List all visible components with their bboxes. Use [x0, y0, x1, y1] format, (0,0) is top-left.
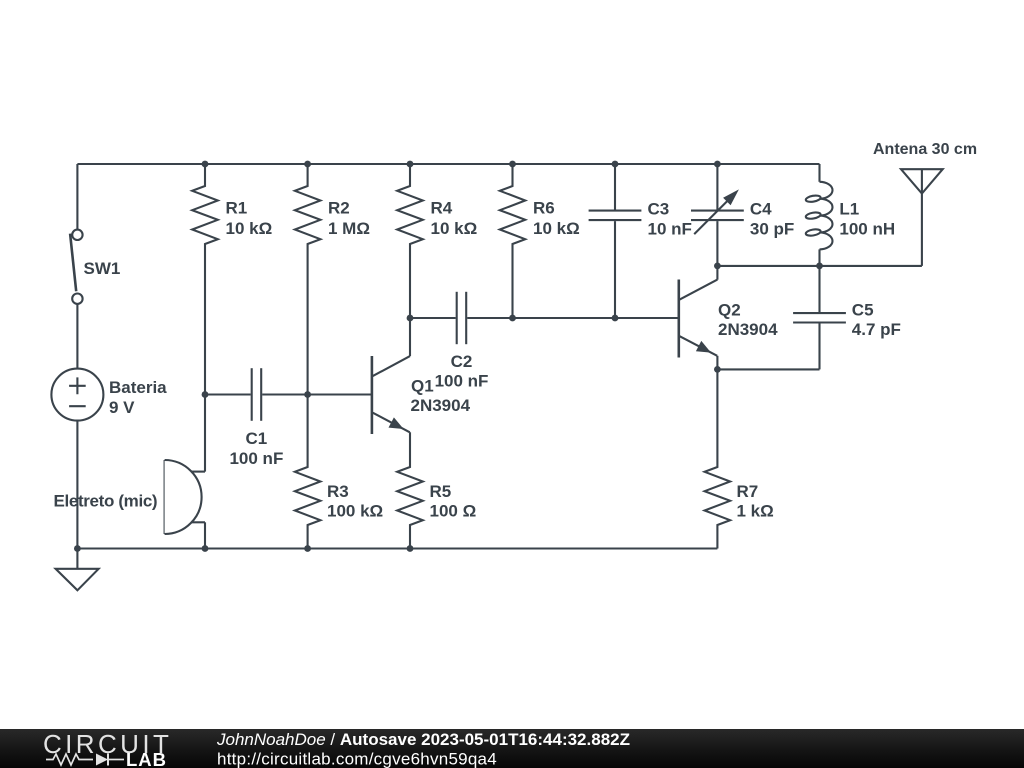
svg-text:100 Ω: 100 Ω [430, 502, 477, 521]
node R1 top [202, 161, 209, 168]
node C2 left [407, 315, 414, 322]
resistor R3 [295, 395, 321, 549]
svg-text:10 nF: 10 nF [648, 220, 692, 239]
svg-text:10 kΩ: 10 kΩ [226, 219, 273, 238]
svg-text:C5: C5 [852, 301, 874, 320]
svg-text:L1: L1 [839, 199, 859, 218]
battery V1 [51, 369, 103, 421]
svg-text:Bateria: Bateria [109, 378, 167, 397]
node L1 bottom [816, 263, 823, 270]
svg-text:100 nF: 100 nF [435, 372, 489, 391]
node C3 top [612, 161, 619, 168]
footer bar [0, 729, 1024, 768]
svg-text:30 pF: 30 pF [750, 220, 794, 239]
node ground tap [74, 545, 81, 552]
antenna [921, 169, 923, 266]
node mic bottom [202, 545, 209, 552]
svg-text:Q2: Q2 [718, 301, 741, 320]
node C4 top [714, 161, 721, 168]
svg-text:R7: R7 [737, 482, 759, 501]
svg-text:R2: R2 [328, 199, 350, 218]
logo resistor-diode graphic [46, 754, 93, 765]
wire mic to bottom rail [204, 522, 206, 548]
node R3 bottom [304, 545, 311, 552]
transistor Q2 [679, 280, 718, 358]
svg-text:100 nF: 100 nF [229, 449, 283, 468]
svg-text:R6: R6 [533, 199, 555, 218]
node C3 bottom [612, 315, 619, 322]
svg-text:C3: C3 [648, 199, 670, 218]
node Q2 collector [714, 263, 721, 270]
wire Q1 base [308, 393, 372, 395]
ground [76, 549, 78, 569]
svg-text:http://circuitlab.com/cgve6hvn: http://circuitlab.com/cgve6hvn59qa4 [217, 750, 497, 768]
capacitor C2 [410, 317, 456, 319]
svg-text:2N3904: 2N3904 [718, 320, 778, 339]
svg-text:C4: C4 [750, 199, 772, 218]
resistor R5 [397, 432, 423, 548]
microphone MIC1 electret [164, 460, 166, 534]
resistor R2 [295, 164, 321, 395]
node C1 left [202, 391, 209, 398]
wire bottom rail [77, 547, 717, 549]
svg-text:SW1: SW1 [84, 259, 121, 278]
svg-text:Antena 30 cm: Antena 30 cm [873, 141, 977, 158]
switch SW1 [70, 230, 83, 304]
node R4 top [407, 161, 414, 168]
svg-text:R3: R3 [327, 482, 349, 501]
svg-text:100 kΩ: 100 kΩ [327, 502, 383, 521]
wire Q2 emitter [716, 356, 718, 370]
wire battery to bottom rail [76, 421, 78, 549]
svg-text:1 MΩ: 1 MΩ [328, 219, 370, 238]
svg-text:Eletreto (mic): Eletreto (mic) [54, 492, 158, 511]
node R5 bottom [407, 545, 414, 552]
capacitor C4 variable [716, 164, 718, 210]
resistor R4 [397, 164, 423, 318]
capacitor C5 [818, 266, 820, 312]
wire collector rail [717, 265, 922, 267]
svg-text:R4: R4 [431, 199, 453, 218]
svg-text:Q1: Q1 [411, 377, 434, 396]
wire battery top segment [76, 164, 78, 230]
resistor R7 [705, 369, 731, 548]
node C2 right [509, 315, 516, 322]
wire C1 node to mic [204, 395, 206, 472]
node R2 top [304, 161, 311, 168]
capacitor C1 [205, 393, 251, 395]
svg-text:2N3904: 2N3904 [411, 396, 471, 415]
inductor L1 [805, 164, 832, 266]
svg-text:R5: R5 [430, 482, 452, 501]
wire top rail [77, 163, 819, 165]
wire switch to battery [76, 304, 78, 369]
svg-text:C2: C2 [451, 352, 473, 371]
svg-text:10 kΩ: 10 kΩ [431, 219, 478, 238]
svg-text:LAB: LAB [126, 749, 167, 768]
svg-text:10 kΩ: 10 kΩ [533, 219, 580, 238]
svg-text:C1: C1 [246, 429, 268, 448]
svg-text:R1: R1 [226, 199, 248, 218]
wire emitter to C5 [717, 368, 819, 370]
svg-text:JohnNoahDoe / Autosave 2023-05: JohnNoahDoe / Autosave 2023-05-01T16:44:… [216, 730, 630, 749]
resistor R6 [500, 164, 525, 318]
wire Q2 collector [716, 266, 718, 280]
svg-text:4.7 pF: 4.7 pF [852, 320, 901, 339]
node Q2 emitter [714, 366, 721, 373]
svg-text:1 kΩ: 1 kΩ [737, 502, 774, 521]
transistor Q1 [372, 356, 410, 434]
capacitor C3 [614, 164, 616, 210]
svg-text:100 nH: 100 nH [839, 220, 895, 239]
wire Q1 collector [409, 318, 411, 356]
resistor R1 [192, 164, 218, 395]
node R6 top [509, 161, 516, 168]
node C1 right [304, 391, 311, 398]
svg-text:9 V: 9 V [109, 398, 135, 417]
wire C2 to Q2 base [513, 317, 679, 319]
